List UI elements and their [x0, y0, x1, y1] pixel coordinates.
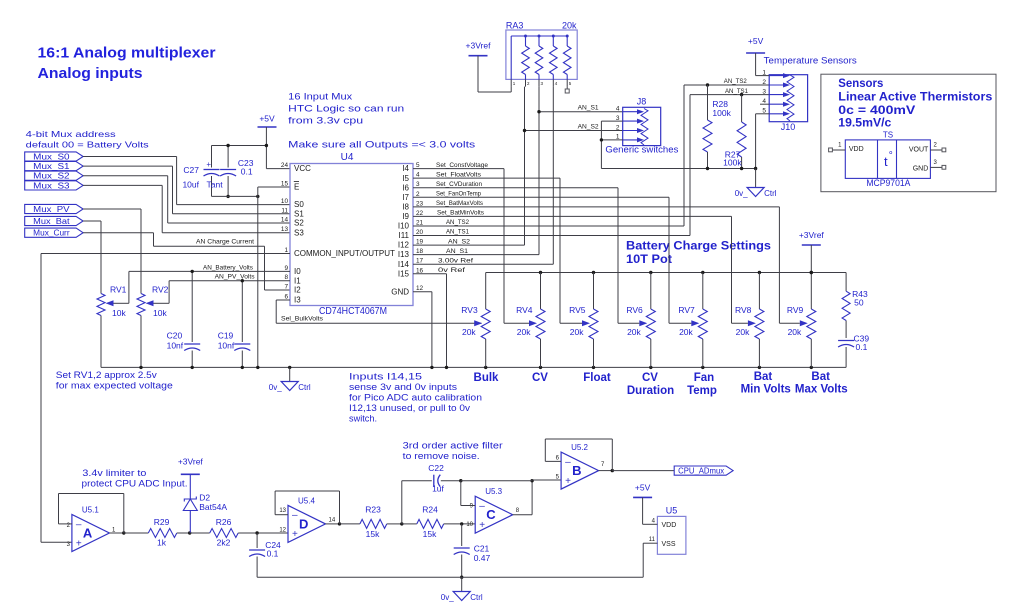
- wire Mux_Curr / AN Charge Current to U4 I2: [83, 232, 153, 234]
- svg-text:Inputs I14,15: Inputs I14,15: [349, 372, 422, 382]
- svg-text:0.1: 0.1: [241, 167, 253, 177]
- wire RV9 wiper stub: [779, 322, 799, 324]
- wire RV7 wiper stub: [669, 322, 691, 324]
- wire +5V to VCC rail: [265, 127, 267, 169]
- svg-text:–: –: [292, 510, 298, 521]
- svg-text:C19: C19: [218, 331, 234, 341]
- svg-text:B: B: [572, 463, 581, 478]
- svg-text:+5V: +5V: [259, 114, 275, 124]
- wire Set_BatMinVolts to RV8 wiper: [413, 215, 732, 217]
- svg-text:Set_BatMinVolts: Set_BatMinVolts: [437, 210, 484, 217]
- svg-text:switch.: switch.: [349, 414, 377, 424]
- svg-text:8: 8: [516, 508, 520, 514]
- J8 internal contacts: [623, 111, 640, 113]
- op-amp U5.1 A: [72, 515, 110, 552]
- svg-text:4: 4: [616, 106, 620, 113]
- svg-text:I6: I6: [402, 183, 409, 192]
- svg-text:2: 2: [616, 124, 620, 131]
- wire U5.3 plus from R24: [460, 522, 463, 525]
- tag Mux_Curr: [25, 228, 83, 237]
- svg-text:–: –: [76, 519, 82, 530]
- RA3 internal common rail: [511, 35, 567, 37]
- wire Mux_S3 to U4 S3: [83, 184, 162, 186]
- svg-text:0.1: 0.1: [856, 342, 868, 352]
- wire U4 GND pin12 to 0v rail: [413, 291, 432, 293]
- svg-text:AN Charge Current: AN Charge Current: [196, 239, 254, 246]
- svg-text:+: +: [206, 160, 211, 169]
- svg-text:R24: R24: [422, 505, 438, 515]
- svg-text:VDD: VDD: [662, 522, 677, 529]
- svg-text:I11: I11: [398, 231, 409, 240]
- svg-text:AN_S2: AN_S2: [578, 123, 599, 130]
- diode D2 Bat54A: [188, 531, 191, 534]
- svg-text:0.1: 0.1: [267, 549, 279, 559]
- resistor R24 15k: [400, 522, 403, 525]
- svg-text:Generic switches: Generic switches: [605, 145, 679, 155]
- svg-text:Tant: Tant: [207, 180, 224, 190]
- svg-text:C22: C22: [428, 463, 444, 473]
- wire +3Vref pot rail: [486, 272, 846, 274]
- svg-text:14: 14: [281, 217, 289, 224]
- svg-text:GND: GND: [391, 287, 409, 296]
- svg-text:U5.2: U5.2: [571, 443, 588, 452]
- wire J10 pin5 to 0v: [756, 113, 770, 115]
- svg-text:15k: 15k: [423, 529, 437, 539]
- svg-text:I8: I8: [402, 202, 409, 211]
- wire Set_ConstVoltage to RV4 wiper: [413, 168, 504, 170]
- svg-text:I14: I14: [398, 260, 410, 269]
- svg-text:RV2: RV2: [152, 285, 169, 295]
- svg-text:13: 13: [279, 508, 286, 514]
- svg-text:U5.3: U5.3: [485, 487, 502, 496]
- svg-text:Min Volts: Min Volts: [741, 384, 791, 396]
- svg-text:TS: TS: [883, 131, 893, 140]
- wire Mux_S1 to U4 S1: [83, 165, 172, 167]
- svg-text:6: 6: [284, 294, 288, 301]
- svg-text:Bulk: Bulk: [474, 372, 500, 384]
- svg-text:4: 4: [555, 81, 558, 86]
- svg-text:–: –: [479, 501, 485, 512]
- svg-text:S2: S2: [294, 219, 304, 228]
- svg-text:I5: I5: [402, 174, 409, 183]
- svg-text:+5V: +5V: [748, 36, 764, 46]
- wire RV8 wiper stub: [732, 322, 748, 324]
- svg-text:9: 9: [470, 504, 474, 510]
- svg-text:AN_Battery_Volts: AN_Battery_Volts: [203, 264, 254, 271]
- svg-text:I9: I9: [402, 212, 409, 221]
- svg-text:19: 19: [416, 239, 424, 246]
- svg-text:R29: R29: [154, 517, 170, 527]
- tag Mux_PV: [25, 204, 83, 213]
- svg-text:AN_TS1: AN_TS1: [446, 229, 469, 236]
- potentiometer RV9 20k: [810, 273, 812, 310]
- wire J8 pin3 pin1 to 0v: [601, 120, 622, 122]
- resistor R43 50: [845, 273, 847, 292]
- svg-text:I4: I4: [402, 164, 409, 173]
- svg-text:0v_: 0v_: [441, 593, 454, 602]
- svg-text:20k: 20k: [736, 327, 750, 337]
- resistor R27 100k: [741, 95, 743, 122]
- connector J8 Generic switches: [623, 107, 661, 145]
- svg-text:A: A: [83, 526, 93, 541]
- svg-text:21: 21: [416, 219, 424, 226]
- svg-text:GND: GND: [913, 166, 929, 173]
- svg-text:+: +: [76, 538, 82, 549]
- svg-text:I12: I12: [398, 241, 410, 250]
- potentiometer RV7 20k: [702, 273, 704, 310]
- svg-text:CPU_ADmux: CPU_ADmux: [678, 467, 724, 476]
- svg-text:4-bit Mux address: 4-bit Mux address: [26, 129, 116, 139]
- wire Set_CVDuration to RV6 wiper: [413, 187, 618, 189]
- svg-text:Set_ConstVoltage: Set_ConstVoltage: [436, 162, 488, 169]
- svg-text:AN_S2: AN_S2: [448, 238, 470, 245]
- svg-text:Make sure all Outputs =< 3.0 v: Make sure all Outputs =< 3.0 volts: [288, 140, 475, 151]
- svg-text:+3Vref: +3Vref: [799, 230, 825, 240]
- wire 0v Ref down to 0v rail: [413, 273, 447, 275]
- svg-text:13: 13: [281, 226, 289, 233]
- svg-text:for max expected voltage: for max expected voltage: [56, 381, 173, 391]
- capacitor C21 0.47: [461, 524, 463, 546]
- svg-text:Fan: Fan: [694, 372, 714, 384]
- potentiometer RV6 20k: [650, 273, 652, 310]
- svg-text:J8: J8: [637, 96, 647, 106]
- wire AN_S1 to J8/RA3: [413, 254, 539, 256]
- sensor pin 1: [832, 149, 845, 151]
- svg-text:I12,13 unused, or pull to 0v: I12,13 unused, or pull to 0v: [349, 403, 471, 413]
- svg-text:RV9: RV9: [787, 305, 804, 315]
- svg-text:20k: 20k: [788, 327, 802, 337]
- svg-text:RV7: RV7: [678, 305, 695, 315]
- ground 0v_Ctrl bottom: [461, 577, 463, 591]
- svg-text:Mux_S2: Mux_S2: [33, 172, 70, 181]
- svg-text:AN_TS2: AN_TS2: [724, 78, 747, 85]
- svg-text:3: 3: [934, 160, 938, 166]
- sensor pin 2: [930, 149, 942, 151]
- svg-text:Set_FanOnTemp: Set_FanOnTemp: [436, 190, 481, 197]
- connector J10: [769, 75, 807, 122]
- wire U5 VSS pin11 to 0v: [643, 542, 657, 544]
- svg-text:C: C: [486, 507, 496, 522]
- RA3 pin5 no-connect: [566, 87, 568, 89]
- op U5 power box: [657, 516, 686, 554]
- svg-text:15: 15: [281, 181, 289, 188]
- resistor R23 15k: [340, 523, 360, 525]
- wire Set_FloatVolts to RV5 wiper: [413, 177, 560, 179]
- svg-text:16 Input Mux: 16 Input Mux: [288, 92, 352, 103]
- svg-text:Mux_S0: Mux_S0: [33, 153, 70, 162]
- wire cap ground rail to E pin and 0v: [212, 195, 258, 197]
- svg-text:Ctrl: Ctrl: [470, 593, 483, 602]
- svg-text:10T Pot: 10T Pot: [626, 252, 672, 266]
- svg-text:11: 11: [281, 207, 288, 214]
- svg-text:+5V: +5V: [635, 482, 651, 492]
- svg-text:19.5mV/c: 19.5mV/c: [838, 116, 891, 130]
- svg-text:5: 5: [416, 162, 420, 169]
- capacitor C19 10nf: [241, 281, 243, 342]
- wire Mux_PV to RV2: [83, 208, 141, 210]
- svg-text:Mux_PV: Mux_PV: [33, 205, 70, 214]
- potentiometer RV3 20k: [485, 273, 487, 310]
- svg-text:AN_TS1: AN_TS1: [725, 88, 748, 95]
- svg-text:3rd order active filter: 3rd order active filter: [403, 441, 503, 451]
- svg-text:I13: I13: [398, 250, 410, 259]
- capacitor C22 1uf: [401, 481, 403, 524]
- svg-text:VDD: VDD: [849, 146, 864, 153]
- tag Mux_S3: [25, 181, 83, 190]
- svg-text:Ctrl: Ctrl: [298, 383, 311, 392]
- svg-text:9: 9: [284, 265, 288, 272]
- sensors info box: [821, 74, 996, 192]
- svg-text:MCP9701A: MCP9701A: [866, 178, 910, 188]
- svg-text:I10: I10: [398, 222, 410, 231]
- resistor R26 2k2: [190, 532, 210, 534]
- svg-text:2: 2: [934, 143, 938, 149]
- wire output to CPU_ADmux: [612, 470, 674, 472]
- svg-text:I1: I1: [294, 276, 301, 285]
- wire U4 I3 Sel_BulkVolts to RV3 wiper: [276, 299, 290, 301]
- U5.2 feedback loop: [599, 470, 613, 472]
- svg-text:1: 1: [513, 81, 516, 86]
- svg-text:Temp: Temp: [687, 385, 717, 397]
- svg-text:10nf: 10nf: [167, 340, 184, 350]
- svg-text:from 3.3v cpu: from 3.3v cpu: [288, 115, 363, 126]
- svg-text:VSS: VSS: [662, 541, 676, 548]
- svg-text:3: 3: [67, 542, 71, 548]
- svg-text:°: °: [889, 151, 893, 162]
- wire E pin15: [258, 186, 290, 188]
- tag Mux_S1: [25, 162, 83, 171]
- svg-text:Battery Charge Settings: Battery Charge Settings: [626, 239, 771, 253]
- svg-text:Sel_BulkVolts: Sel_BulkVolts: [281, 316, 324, 323]
- svg-text:Set_FloatVolts: Set_FloatVolts: [436, 171, 481, 178]
- svg-text:I7: I7: [402, 193, 409, 202]
- U5.4 feedback loop: [326, 523, 340, 525]
- tag Mux_S2: [25, 171, 83, 180]
- J10 internal contacts: [769, 75, 786, 77]
- svg-text:4: 4: [652, 518, 656, 524]
- svg-text:Bat: Bat: [754, 371, 773, 383]
- svg-text:RV5: RV5: [569, 305, 586, 315]
- svg-text:10: 10: [466, 522, 473, 528]
- svg-text:Bat: Bat: [811, 371, 830, 383]
- svg-text:HTC Logic so can run: HTC Logic so can run: [288, 104, 404, 115]
- svg-text:0v Ref: 0v Ref: [438, 267, 465, 274]
- svg-text:E: E: [294, 183, 299, 192]
- wire +5V to J10 pin1: [755, 53, 757, 76]
- svg-text:AN_PV_Volts: AN_PV_Volts: [215, 274, 256, 281]
- svg-text:2k2: 2k2: [217, 538, 231, 548]
- svg-text:1k: 1k: [157, 538, 167, 548]
- svg-text:5: 5: [569, 81, 572, 86]
- wire VCC pin24: [266, 168, 290, 170]
- svg-text:20k: 20k: [570, 327, 584, 337]
- tag Mux_Bat: [25, 216, 83, 225]
- svg-text:R23: R23: [365, 505, 381, 515]
- svg-text:I0: I0: [294, 267, 301, 276]
- capacitor C27 10uf Tant: [211, 146, 213, 168]
- svg-text:0.47: 0.47: [474, 553, 491, 563]
- tag CPU_ADmux: [674, 466, 733, 475]
- svg-text:10k: 10k: [112, 308, 126, 318]
- svg-text:U5.4: U5.4: [298, 496, 315, 505]
- resistor array RA3 20k box: [506, 30, 577, 79]
- svg-text:S0: S0: [294, 200, 304, 209]
- wire bottom 0v rail: [257, 576, 643, 578]
- wire U4 COMMON to opamp A: [41, 253, 290, 255]
- svg-text:+: +: [565, 476, 571, 487]
- op-amp U5.4 D: [288, 505, 326, 542]
- resistor R29 1k: [124, 532, 149, 534]
- wire U4 I0 AN_Battery_Volts: [129, 270, 290, 272]
- wire 0v rail: [101, 366, 846, 368]
- svg-text:Linear Active Thermistors: Linear Active Thermistors: [838, 89, 992, 103]
- svg-text:2: 2: [416, 191, 420, 198]
- wire Mux_Bat to RV1: [83, 220, 101, 222]
- svg-text:6: 6: [556, 456, 560, 462]
- wire AN_TS2 to J10/R28: [413, 225, 684, 227]
- svg-text:20k: 20k: [462, 327, 476, 337]
- svg-text:10: 10: [281, 198, 289, 205]
- potentiometer RV1 10k: [97, 294, 105, 316]
- svg-text:to remove noise.: to remove noise.: [403, 451, 480, 461]
- wire +3Vref to RA3 common: [477, 56, 479, 92]
- potentiometer RV8 20k: [758, 273, 760, 310]
- svg-text:t: t: [884, 154, 888, 169]
- svg-text:Set_BatMaxVolts: Set_BatMaxVolts: [436, 200, 483, 207]
- svg-text:0v_: 0v_: [735, 189, 748, 198]
- svg-text:AN_S1: AN_S1: [578, 105, 599, 112]
- RA3 pin stubs and numbers: [510, 79, 512, 86]
- svg-text:16: 16: [416, 267, 424, 274]
- potentiometer RV4 20k: [540, 273, 542, 310]
- svg-text:VOUT: VOUT: [909, 147, 929, 154]
- svg-text:0c = 400mV: 0c = 400mV: [838, 103, 915, 117]
- potentiometer RV5 20k: [593, 273, 595, 310]
- op-amp U5.3 C: [475, 496, 513, 533]
- svg-text:sense 3v and 0v inputs: sense 3v and 0v inputs: [349, 382, 458, 392]
- svg-text:+3Vref: +3Vref: [178, 456, 204, 466]
- svg-text:Temperature Sensors: Temperature Sensors: [764, 56, 858, 66]
- svg-text:Float: Float: [583, 372, 611, 384]
- svg-text:14: 14: [329, 518, 336, 524]
- svg-text:Set_CVDuration: Set_CVDuration: [436, 181, 482, 188]
- svg-text:CV: CV: [642, 372, 658, 384]
- capacitor C39 0.1: [838, 340, 854, 342]
- svg-text:C27: C27: [183, 165, 199, 175]
- svg-text:24: 24: [281, 162, 289, 169]
- svg-text:R26: R26: [216, 517, 232, 527]
- svg-text:D: D: [299, 516, 308, 531]
- J10 pin4 stub: [760, 103, 769, 105]
- svg-text:7: 7: [601, 462, 605, 468]
- capacitor C23 0.1: [227, 146, 229, 168]
- wire 3.00v Ref to RA3: [413, 263, 553, 265]
- svg-text:Mux_S3: Mux_S3: [33, 181, 70, 190]
- svg-text:Set RV1,2 approx 2.5v: Set RV1,2 approx 2.5v: [56, 370, 158, 380]
- svg-text:17: 17: [416, 258, 424, 265]
- wire Set_FanOnTemp to RV7 wiper: [413, 196, 669, 198]
- svg-text:RA3: RA3: [506, 21, 524, 31]
- svg-text:Mux_S1: Mux_S1: [33, 162, 70, 171]
- sensor pin 3: [930, 166, 942, 168]
- wire Set_BatMaxVolts to RV9 wiper: [413, 206, 779, 208]
- svg-text:Bat54A: Bat54A: [199, 502, 227, 512]
- svg-text:0v_: 0v_: [269, 383, 282, 392]
- svg-text:1uf: 1uf: [432, 484, 444, 494]
- ground 0v_Ctrl under U4: [289, 367, 291, 381]
- wire RV4 wiper stub: [504, 322, 529, 324]
- svg-text:2: 2: [762, 79, 766, 86]
- wire AN_S2 to J8/RA3: [413, 244, 525, 246]
- wire 0v rail J8 R28 R27: [601, 168, 755, 170]
- wire C22 to U5.3 minus: [460, 481, 462, 506]
- svg-text:Max Volts: Max Volts: [795, 384, 848, 396]
- sensor U-MCP9701A symbol: [845, 140, 930, 179]
- svg-text:11: 11: [649, 537, 656, 543]
- svg-text:50: 50: [854, 298, 864, 308]
- svg-text:–: –: [565, 457, 571, 468]
- svg-text:20k: 20k: [562, 21, 577, 31]
- svg-text:8: 8: [284, 274, 288, 281]
- svg-text:12: 12: [416, 285, 424, 292]
- svg-text:1: 1: [838, 143, 842, 149]
- capacitor C24 0.1: [255, 531, 258, 534]
- wire U5.3 output loop to U5.2 plus: [513, 514, 532, 516]
- svg-text:1: 1: [284, 247, 288, 254]
- svg-text:15k: 15k: [366, 529, 380, 539]
- svg-text:100k: 100k: [723, 157, 742, 167]
- svg-text:CD74HCT4067M: CD74HCT4067M: [319, 306, 387, 317]
- svg-text:20k: 20k: [627, 327, 641, 337]
- svg-text:+3Vref: +3Vref: [466, 41, 492, 51]
- svg-text:RV6: RV6: [626, 305, 643, 315]
- svg-text:12: 12: [279, 528, 286, 534]
- svg-text:U5.1: U5.1: [82, 506, 99, 515]
- svg-text:22: 22: [416, 210, 424, 217]
- wire RV5 wiper stub: [560, 322, 582, 324]
- svg-text:Mux_Bat: Mux_Bat: [33, 217, 70, 226]
- svg-text:default 00 = Battery Volts: default 00 = Battery Volts: [26, 139, 149, 149]
- wire AN_TS1 to J10/R27: [413, 235, 690, 237]
- svg-text:3: 3: [762, 88, 766, 95]
- svg-text:Sensors: Sensors: [838, 76, 883, 90]
- svg-text:20: 20: [416, 229, 424, 236]
- svg-text:18: 18: [416, 248, 424, 255]
- svg-text:20k: 20k: [679, 327, 693, 337]
- svg-text:3.4v limiter to: 3.4v limiter to: [82, 468, 146, 478]
- svg-text:C20: C20: [167, 331, 183, 341]
- svg-text:RV1: RV1: [110, 285, 127, 295]
- wire Mux_S2 to U4 S2: [83, 175, 168, 177]
- svg-text:RV8: RV8: [735, 305, 752, 315]
- svg-text:protect CPU ADC Input.: protect CPU ADC Input.: [82, 479, 188, 489]
- U5.1 feedback loop: [109, 532, 123, 534]
- svg-text:S1: S1: [294, 209, 304, 218]
- svg-text:VCC: VCC: [294, 164, 311, 173]
- svg-text:Ctrl: Ctrl: [764, 189, 777, 198]
- svg-text:10nf: 10nf: [218, 340, 235, 350]
- svg-text:+: +: [292, 529, 298, 540]
- svg-text:COMMON_INPUT/OUTPUT: COMMON_INPUT/OUTPUT: [294, 249, 395, 258]
- wire Mux_S0 to U4 S0: [83, 156, 177, 158]
- svg-text:I15: I15: [398, 269, 410, 278]
- svg-text:100k: 100k: [712, 108, 731, 118]
- RA3 resistors: [525, 36, 527, 46]
- tag Mux_S0: [25, 152, 83, 161]
- capacitor C20 10nf: [191, 271, 193, 342]
- svg-text:7: 7: [284, 284, 288, 291]
- svg-text:+: +: [479, 520, 485, 531]
